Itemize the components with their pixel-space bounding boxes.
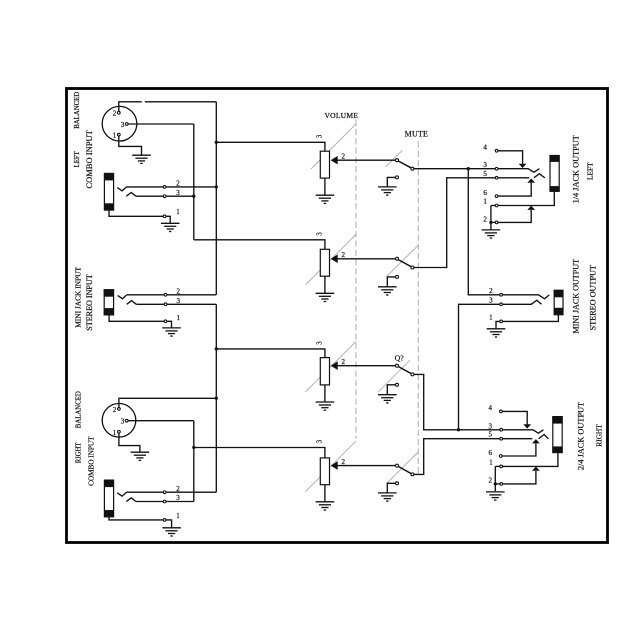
volume gang dashed line	[355, 120, 357, 439]
ground at pot RV1c	[316, 402, 335, 410]
J3 terminal 3	[163, 494, 180, 503]
label MUTE	[405, 129, 428, 138]
XLR U2 pin 1	[113, 429, 120, 437]
ground at XLR U2	[131, 452, 150, 460]
XLR U1 pin 3	[121, 121, 128, 129]
wire J5 tip line with contact notch	[503, 295, 550, 299]
J3 ring contact spring	[126, 498, 136, 502]
J6 pin 1 (sleeve)	[489, 459, 502, 468]
J3 terminal 2	[163, 485, 180, 494]
mute switch gang diagonal row 1	[386, 150, 403, 166]
mute switch SW1a pole contact	[396, 159, 399, 162]
mute switch SW1b lever	[399, 260, 412, 267]
wire right cold bus D	[192, 421, 195, 502]
wire branch L+ down to mini output	[468, 169, 499, 295]
wire J3 terminal 2 to bus C	[166, 491, 216, 493]
svg-text:2: 2	[342, 153, 346, 161]
potentiometer RV1d pin 3 label	[316, 439, 323, 443]
label 2/4 JACK OUTPUT	[576, 402, 585, 470]
jack J2 (mini jack stereo input) body	[104, 289, 114, 315]
wire feed to pot RV1b	[194, 240, 325, 250]
wire J2 terminal 3 to bus C	[167, 303, 216, 305]
wire J4 sleeve line to jack	[491, 191, 554, 205]
wire mute SW1c riser to 2/4 output tip (node R+)	[414, 374, 500, 431]
svg-text:LEFT: LEFT	[74, 150, 81, 167]
wire mute SW1c ground contact to ground	[387, 385, 395, 395]
wire J5 pin 1 to ground	[496, 321, 500, 328]
jack J6 (2/4 jack output right) body	[552, 416, 562, 453]
wire J3 sleeve to terminal 1	[109, 517, 163, 520]
label COMBO INPUT (right)	[88, 436, 96, 486]
mute switch SW1a throw contact	[411, 167, 414, 170]
J4 pin 4	[483, 143, 498, 152]
potentiometer RV1b wiper arrow	[331, 255, 396, 264]
XLR U2 pin 3	[121, 418, 128, 426]
svg-text:1: 1	[176, 512, 180, 520]
wire J1 ring to terminal 3	[136, 195, 163, 197]
wire mute SW1d ground contact to ground	[387, 483, 395, 492]
svg-text:1: 1	[113, 429, 117, 437]
J5 pin 1	[489, 314, 502, 323]
J6 pin 2	[489, 477, 503, 486]
wire J6 pins 1-2 to ground	[494, 466, 500, 491]
wire J1 tip to terminal 2	[127, 186, 164, 188]
wire mute SW1a ground contact to ground	[387, 177, 395, 186]
svg-text:2: 2	[483, 216, 487, 224]
wire pot RV1b to ground	[324, 276, 326, 293]
potentiometer RV1a pin 3 label	[316, 134, 323, 138]
label Q? at mute SW1c	[395, 354, 405, 363]
svg-text:1: 1	[483, 198, 487, 206]
wire mute SW1b riser to 1/4 output ring (node L-)	[414, 178, 495, 268]
svg-text:5: 5	[489, 430, 493, 438]
wire feed to pot RV1a	[216, 142, 325, 151]
svg-text:4: 4	[483, 143, 487, 151]
wire J2 ring to terminal 3	[136, 303, 164, 305]
wire J2 terminal 1 to ground	[167, 321, 171, 327]
svg-text:2: 2	[113, 406, 117, 414]
frame border	[67, 89, 608, 543]
label LEFT BALANCED	[74, 92, 81, 168]
mute switch SW1a lever	[399, 161, 412, 168]
mute switch SW1d pole contact	[396, 464, 399, 467]
wire pot RV1a to ground	[324, 178, 326, 195]
svg-text:2: 2	[489, 287, 493, 295]
XLR U2 pin 2	[113, 406, 120, 414]
XLR U1 pin 2	[113, 110, 120, 118]
wire J4 pin 2 switch arm	[498, 206, 535, 223]
potentiometer RV1a body	[320, 151, 329, 178]
label MINI JACK INPUT	[74, 267, 83, 328]
wire J4 pins 1-2 to ground	[489, 206, 495, 230]
potentiometer RV1a wiper pin 2 label	[342, 153, 346, 161]
svg-text:MINI JACK INPUT: MINI JACK INPUT	[74, 267, 83, 328]
ground at J6	[486, 492, 505, 500]
ground at mute SW1a	[378, 187, 397, 195]
wire J3 ring to terminal 3	[136, 501, 163, 503]
jack J1 (left combo 1/4 input) body	[104, 173, 114, 211]
XLR connector U2 (right combo input) body	[102, 404, 136, 438]
label RIGHT BALANCED	[76, 391, 83, 463]
svg-text:2: 2	[489, 477, 493, 485]
potentiometer RV1b body	[320, 249, 329, 276]
svg-text:STEREO INPUT: STEREO INPUT	[85, 274, 94, 330]
wire right hot bus C	[215, 304, 218, 492]
J1 terminal 1	[163, 208, 180, 217]
J2 terminal 1	[164, 314, 180, 323]
mute switch SW1d ground contact	[396, 482, 399, 485]
ground at pot RV1a	[316, 195, 335, 203]
mute switch gang diagonal row 2	[387, 245, 418, 276]
volume pot gang diagonal row 4	[306, 441, 356, 491]
svg-text:5: 5	[483, 170, 487, 178]
label LEFT (output)	[585, 162, 594, 180]
potentiometer RV1c wiper pin 2 label	[342, 358, 346, 366]
volume pot gang diagonal row 1	[311, 124, 356, 169]
svg-text:1: 1	[489, 459, 493, 467]
wire left hot bus A	[215, 102, 218, 295]
ground at mute SW1b	[378, 287, 397, 295]
J1 terminal 3	[163, 189, 180, 198]
mute switch SW1b throw contact	[411, 266, 414, 269]
wire mute SW1a to 1/4 output tip (node L+)	[414, 167, 495, 170]
svg-text:3: 3	[483, 161, 487, 169]
jack J4 (1/4 jack output left) body	[550, 155, 560, 192]
mute switch SW1b pole contact	[396, 257, 399, 260]
svg-text:3: 3	[489, 297, 493, 305]
wire J1 terminal 3 to bus B	[166, 195, 194, 197]
svg-text:2: 2	[342, 251, 346, 259]
potentiometer RV1b pin 3 label	[316, 232, 323, 236]
ground at XLR U1	[132, 155, 151, 163]
wire J3 tip to terminal 2	[127, 491, 164, 493]
ground at pot RV1d	[316, 502, 335, 510]
wire J4 pin 4 switch arm	[498, 151, 526, 168]
volume pot gang diagonal row 2	[306, 235, 356, 285]
mute gang dashed line	[417, 142, 419, 475]
mute switch gang diagonal row 4	[387, 452, 418, 483]
J4 pin 3 (tip)	[483, 161, 498, 170]
svg-text:1: 1	[176, 208, 180, 216]
jack J3 (right combo 1/4 input) body	[104, 480, 114, 518]
wire J2 sleeve to terminal 1	[109, 315, 164, 321]
volume pot gang diagonal row 3	[306, 342, 356, 392]
mute switch SW1c pole contact	[396, 364, 399, 367]
mute switch SW1d throw contact	[411, 473, 414, 476]
J6 pin 6	[489, 449, 503, 458]
J2 terminal 2	[164, 287, 180, 296]
J6 pin 4	[489, 404, 503, 413]
J1 tip contact spring	[117, 187, 126, 191]
ground at mute SW1c	[378, 395, 397, 403]
label COMBO INPUT (left)	[84, 129, 94, 188]
wire J6 sleeve line to jack	[495, 453, 558, 467]
ground at J4	[482, 230, 501, 238]
XLR U1 pin 1	[113, 132, 120, 140]
wire J2 tip to terminal 2	[127, 294, 164, 296]
potentiometer RV1c wiper arrow	[331, 361, 396, 370]
svg-text:3: 3	[121, 418, 125, 426]
svg-text:2: 2	[342, 458, 346, 466]
svg-text:3: 3	[121, 121, 125, 129]
wire J4 pin 6 switch arm	[498, 179, 535, 197]
J4 ring contact spring	[534, 174, 545, 178]
wire J6 pin 2 switch arm	[503, 467, 540, 484]
J6 pin 3 (tip)	[489, 423, 503, 432]
svg-text:1: 1	[113, 132, 117, 140]
potentiometer RV1c body	[320, 358, 329, 385]
ground at mute SW1d	[378, 493, 397, 501]
wire J2 terminal 2 to bus A	[167, 294, 216, 296]
wire J3 terminal 1 to ground	[166, 520, 171, 528]
wire feed to pot RV1c	[216, 349, 325, 358]
label RIGHT (output)	[595, 424, 604, 447]
wire XLR U1 pin 2 to left bus	[119, 102, 217, 111]
wire J1 sleeve to terminal 1	[109, 210, 163, 216]
potentiometer RV1a wiper arrow	[331, 156, 396, 165]
J2 ring contact spring	[127, 301, 137, 305]
label MINI JACK OUTPUT	[572, 259, 581, 334]
mute switch SW1c ground contact	[396, 383, 399, 386]
potentiometer RV1d wiper arrow	[331, 461, 396, 470]
wire XLR U2 pin 3 to cold bus D	[128, 420, 193, 422]
svg-text:BALANCED: BALANCED	[74, 92, 81, 129]
ground at J3	[162, 528, 181, 536]
svg-text:3: 3	[316, 232, 323, 236]
wire J1 terminal 1 to ground	[166, 216, 170, 223]
J4 pin 2	[483, 216, 498, 224]
mute switch SW1c lever	[399, 367, 412, 374]
ground at pot RV1b	[316, 293, 335, 301]
wire J5 ring line with contact spring	[503, 300, 542, 304]
jack J5 (mini jack stereo output) body	[554, 290, 564, 315]
wire J1 terminal 2 to bus A	[166, 186, 216, 188]
svg-text:VOLUME: VOLUME	[324, 111, 358, 120]
svg-text:2: 2	[342, 358, 346, 366]
label VOLUME	[324, 111, 358, 120]
svg-text:3: 3	[316, 341, 323, 345]
wire pot RV1d to ground	[324, 485, 326, 502]
potentiometer RV1c pin 3 label	[316, 341, 323, 345]
wire mute SW1d riser to 2/4 output ring (node R-)	[414, 439, 500, 475]
J3 terminal 1	[163, 512, 180, 521]
wire XLR U2 pin 1 to ground	[119, 434, 140, 452]
wire J6 pin 6 switch arm	[503, 439, 540, 456]
mute switch SW1a ground contact	[396, 176, 399, 179]
J1 terminal 2	[163, 180, 180, 189]
potentiometer RV1d body	[320, 458, 329, 485]
wire J5 sleeve line to jack	[503, 315, 559, 322]
wire J4 tip line with contact notch	[498, 169, 539, 173]
svg-text:LEFT: LEFT	[585, 162, 594, 180]
svg-text:BALANCED: BALANCED	[76, 391, 83, 428]
svg-text:3: 3	[316, 439, 323, 443]
wire branch R+ up to mini output	[459, 304, 500, 430]
svg-text:6: 6	[489, 449, 493, 457]
mute switch SW1b ground contact	[396, 275, 399, 278]
mute switch SW1c throw contact	[411, 373, 414, 376]
label STEREO OUTPUT	[589, 265, 598, 330]
mute switch SW1d lever	[399, 467, 412, 474]
ground at J2	[162, 328, 181, 336]
svg-text:6: 6	[483, 189, 487, 197]
svg-text:4: 4	[489, 404, 493, 412]
svg-text:MUTE: MUTE	[405, 129, 428, 138]
wire mute SW1b ground contact to ground	[387, 277, 395, 287]
J4 pin 6	[483, 189, 498, 197]
potentiometer RV1b wiper pin 2 label	[342, 251, 346, 259]
svg-text:2: 2	[113, 110, 117, 118]
svg-text:1: 1	[489, 314, 493, 322]
svg-text:RIGHT: RIGHT	[595, 424, 604, 447]
J3 tip contact spring	[117, 492, 126, 496]
wire J6 tip line with contact notch	[503, 430, 544, 433]
wire XLR U1 pin 1 to ground	[119, 136, 142, 155]
J1 ring contact spring	[126, 193, 136, 197]
wire left cold bus B	[192, 124, 195, 240]
wire J3 terminal 3 to bus D	[166, 501, 194, 503]
svg-text:COMBO INPUT: COMBO INPUT	[88, 436, 96, 486]
mute switch gang diagonal row 3	[378, 360, 410, 392]
J2 terminal 3	[164, 297, 180, 306]
svg-text:STEREO OUTPUT: STEREO OUTPUT	[589, 265, 598, 330]
wire J6 ring line	[503, 438, 533, 440]
XLR connector U1 (left combo input) body	[102, 106, 137, 141]
J6 ring contact spring	[539, 435, 549, 439]
svg-text:Q?: Q?	[395, 354, 405, 363]
wire J4 ring line	[498, 177, 529, 179]
svg-text:3: 3	[489, 423, 493, 431]
svg-text:MINI JACK OUTPUT: MINI JACK OUTPUT	[572, 259, 581, 334]
potentiometer RV1d wiper pin 2 label	[342, 458, 346, 466]
label 1/4 JACK OUTPUT	[571, 135, 580, 203]
J4 pin 5 (ring)	[483, 170, 498, 179]
J4 pin 1 (sleeve)	[483, 198, 498, 207]
J2 tip contact spring	[118, 295, 127, 299]
wire feed to pot RV1d	[194, 448, 325, 458]
svg-text:COMBO INPUT: COMBO INPUT	[84, 129, 94, 188]
label STEREO INPUT	[85, 274, 94, 330]
svg-text:1/4 JACK OUTPUT: 1/4 JACK OUTPUT	[571, 135, 580, 203]
svg-text:1: 1	[177, 314, 181, 322]
J6 pin 5 (ring)	[489, 430, 503, 440]
ground at J1	[161, 223, 180, 231]
svg-text:RIGHT: RIGHT	[76, 442, 83, 464]
wire XLR U2 pin 2 to bus C	[119, 398, 216, 407]
svg-text:2/4 JACK OUTPUT: 2/4 JACK OUTPUT	[576, 402, 585, 470]
ground at J5	[487, 329, 506, 337]
J5 pin 2	[489, 287, 502, 296]
wire XLR U1 pin 3 to cold bus	[128, 123, 193, 125]
svg-text:3: 3	[316, 134, 323, 138]
wire J6 pin 4 switch arm	[503, 411, 532, 428]
wire pot RV1c to ground	[324, 385, 326, 402]
J5 pin 3	[489, 297, 502, 306]
